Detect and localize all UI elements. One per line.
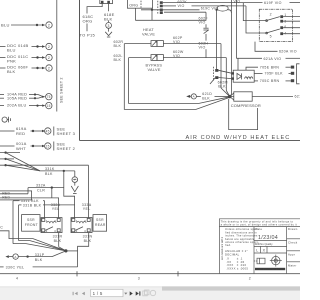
svg-text:Date: Date (255, 227, 262, 231)
svg-text:A: A (14, 255, 16, 259)
svg-text:.XXXX ± .0005: .XXXX ± .0005 (226, 267, 248, 271)
svg-text:SSR: SSR (96, 218, 104, 222)
label HEAT VALVE (142, 28, 155, 36)
connector P2 pins (158, 0, 163, 14)
checked divider (287, 250, 300, 252)
svg-text:BLK: BLK (84, 239, 92, 243)
wire 705F BLK (254, 72, 291, 74)
label 602W VIO (173, 50, 184, 58)
svg-text:4: 4 (16, 276, 18, 280)
splice junction 2 (64, 249, 67, 252)
wire 332A CLR (28, 186, 64, 197)
SSR FRONT label box (22, 215, 40, 232)
frame vertical line (79, 0, 81, 141)
svg-text:BLK: BLK (7, 69, 15, 74)
wire 621A to clutch (237, 58, 239, 70)
svg-text:VIO: VIO (173, 54, 180, 58)
svg-text:VIO: VIO (178, 4, 185, 8)
wire 619C to clutch connector (216, 10, 218, 69)
label 621D BLK (202, 92, 212, 100)
label 602K VIO (178, 0, 188, 8)
title block outline (219, 219, 300, 274)
wire 618E BLK (108, 4, 110, 23)
wire BLU (11, 24, 45, 26)
svg-text:75: 75 (47, 95, 51, 99)
svg-text:332A: 332A (36, 183, 46, 187)
pin circle 15b (45, 143, 51, 149)
svg-text:VIO: VIO (234, 0, 241, 3)
svg-text:BLU: BLU (1, 23, 10, 28)
wire 602P VIO (163, 44, 229, 97)
icon prev page (82, 292, 85, 295)
svg-text:619C VIO: 619C VIO (201, 6, 219, 10)
relay output wires (283, 17, 300, 34)
label 331R BLK (53, 234, 63, 243)
svg-text:4: 4 (54, 229, 56, 233)
thermostat switch S1 (203, 24, 208, 40)
svg-text:331P: 331P (35, 253, 45, 257)
icon snapshot disabled (143, 290, 149, 296)
label 618C ORG (83, 14, 94, 24)
svg-text:SHEET 2: SHEET 2 (57, 146, 76, 151)
svg-text:621: 621 (295, 94, 301, 98)
svg-text:BLK: BLK (202, 96, 210, 100)
icon zoom disabled (150, 290, 155, 295)
wire splice to 330C (66, 250, 78, 252)
date cell divider (254, 239, 287, 241)
svg-text:2: 2 (249, 276, 251, 280)
wire RED 1 (0, 193, 28, 195)
wire 331K branch down (64, 171, 75, 218)
wire 619F branch to relay (243, 3, 266, 21)
icon first page (73, 292, 78, 295)
svg-text:fied.: fied. (225, 243, 231, 247)
wire 331L BLK (13, 201, 45, 244)
icon last page (136, 291, 141, 295)
wire 331K BLK (40, 170, 75, 172)
pin circle 2 (060F) (46, 65, 52, 71)
wires splice fan to motor (230, 93, 234, 100)
label 602F VIO (199, 16, 209, 24)
ground symbol G2 (71, 182, 78, 193)
svg-text:VIO: VIO (199, 46, 206, 50)
svg-text:and details and with it: and details and with it (221, 237, 224, 260)
label 331P BLK (35, 253, 45, 262)
relay K1 box (259, 9, 292, 41)
splice junction (228, 95, 231, 98)
relay arm 2-1 (266, 13, 280, 22)
label 602L BLK (114, 54, 123, 62)
heat valve solenoid L1 (151, 41, 163, 47)
pin circle 75 (46, 94, 52, 100)
wire 105A RED (0, 96, 45, 100)
svg-text:YEL: YEL (52, 207, 60, 211)
svg-text:L: L (256, 249, 258, 253)
svg-text:331B BLK: 331B BLK (23, 203, 42, 207)
connector J1 top-left (100, 0, 113, 4)
svg-text:X: X (263, 249, 266, 253)
SSR REAR label box (93, 215, 107, 232)
pin circle 2 (011C) (46, 54, 52, 60)
bracket SEE SHEET 2 (54, 141, 76, 151)
svg-text:A: A (193, 95, 195, 99)
wire 602L return trunk (129, 58, 230, 104)
svg-text:VIO: VIO (199, 20, 206, 24)
notice micro text (221, 219, 297, 226)
label 602M BLK (218, 80, 228, 88)
connector pins right (291, 64, 300, 84)
wire 202A BLU (0, 104, 45, 106)
relay pins 1,3,6,4 (280, 13, 286, 35)
wire pin4 stub (164, 11, 206, 13)
svg-text:SHEET 3: SHEET 3 (57, 131, 76, 136)
compressor clutch box (232, 70, 255, 82)
label 602P VIO (173, 36, 183, 44)
svg-text:621A VIO: 621A VIO (264, 57, 282, 61)
label 331K BLK (45, 167, 55, 176)
svg-text:705C BRN: 705C BRN (260, 79, 280, 83)
wire to thermostat (135, 10, 206, 21)
svg-text:COMPRESSOR: COMPRESSOR (231, 103, 261, 108)
svg-text:331K: 331K (45, 167, 55, 171)
wire 621A VIO (236, 57, 300, 59)
svg-text:This drawing is the property o: This drawing is the property of and info… (221, 219, 294, 223)
SECTION:TITLE-BLOCK (219, 219, 300, 274)
svg-text:4: 4 (84, 229, 86, 233)
connector bracket line P15 (56, 0, 58, 112)
drawn divider (287, 238, 300, 240)
svg-text:619F VIO: 619F VIO (264, 1, 282, 5)
wire 331N BLK (78, 233, 89, 267)
svg-text:Drawn: Drawn (288, 227, 298, 231)
svg-text:Mater: Mater (288, 263, 297, 267)
wire 620A VIO (255, 42, 278, 52)
label 602H VIO (199, 42, 209, 50)
svg-text:BLK: BLK (114, 58, 122, 62)
bypass valve solenoid L2 (151, 55, 163, 61)
svg-text:VIO: VIO (173, 40, 180, 44)
battery symbol B1 (2, 117, 11, 123)
wire 621 output (252, 96, 293, 98)
label 331N BLK (83, 234, 93, 243)
wire 619F VIO (163, 2, 300, 4)
wire 602W VIO (163, 58, 229, 97)
svg-text:CLR: CLR (37, 188, 45, 192)
svg-text:THIRD ANGLE PROJECTION: THIRD ANGLE PROJECTION (255, 268, 285, 271)
svg-text:2: 2 (48, 56, 50, 60)
pin circle 15 (46, 102, 52, 108)
svg-text:6: 6 (284, 25, 286, 29)
wire 330C YEL (0, 266, 78, 268)
compressor motor box (234, 92, 252, 101)
SECTION:TOOLBAR (0, 286, 300, 300)
page number field (91, 289, 123, 296)
pin circle 2 (014B) (46, 43, 52, 49)
wire 619C VIO (141, 9, 231, 13)
wire 618C ORG (87, 4, 102, 14)
toolbar top edge (0, 286, 300, 288)
wire 602M stub (210, 78, 215, 84)
svg-text:BLU: BLU (7, 47, 16, 52)
svg-text:BLK: BLK (218, 84, 226, 88)
svg-text:BLK: BLK (104, 16, 112, 21)
svg-text:SEE SHEET 2: SEE SHEET 2 (60, 77, 64, 103)
connector box 618M ORG (127, 0, 152, 8)
dropdown caret (124, 293, 127, 295)
label 332A CLR (36, 183, 46, 192)
svg-text:705F BLK: 705F BLK (265, 72, 284, 76)
wire 602R return trunk (124, 44, 229, 110)
column divider right (286, 227, 288, 274)
svg-text:Drillthru Quality: Drillthru Quality (255, 242, 273, 246)
bracket SEE SHEET 3 (54, 126, 76, 136)
svg-text:15: 15 (47, 104, 51, 108)
svg-text:AIR COND W/HYD HEAT ELEC: AIR COND W/HYD HEAT ELEC (186, 135, 291, 141)
svg-text:Check: Check (288, 240, 298, 244)
label 001A WHT (16, 141, 27, 151)
wire VIO vertical 2 (621A) (235, 0, 237, 58)
wire 621D BLK with arrow (186, 94, 228, 99)
column divider left (253, 227, 255, 274)
label 333A YEL (82, 203, 92, 211)
svg-text:RED: RED (2, 195, 10, 199)
wire 331B to splice (19, 241, 66, 251)
svg-text:WHT: WHT (16, 146, 26, 151)
svg-text:BLK: BLK (54, 239, 62, 243)
toolbar background (0, 286, 300, 300)
svg-text:RED: RED (16, 131, 25, 136)
label DDC 011C PNK (7, 54, 28, 64)
wire 602K VIO (163, 5, 246, 7)
alternator symbol M1 (72, 171, 78, 183)
SSR relay rear (71, 218, 92, 233)
wire from 618M pin (134, 8, 136, 20)
wire 705E BRN (246, 67, 291, 70)
pin circle 2 (BLU) (46, 22, 52, 28)
wire feed 1 (0, 151, 40, 170)
ground symbol G1 (105, 28, 112, 37)
wire 619A RED (0, 130, 45, 132)
wire VIO vertical 1 (230, 0, 232, 94)
L X cells (254, 246, 287, 253)
svg-text:2: 2 (48, 66, 50, 70)
icon next page (130, 291, 133, 295)
svg-text:REAR: REAR (95, 223, 106, 227)
tolerance table text (225, 249, 248, 271)
svg-text:BLK: BLK (35, 258, 43, 262)
svg-text:C: C (0, 225, 3, 229)
svg-text:VALVE: VALVE (148, 68, 161, 72)
svg-text:BLK: BLK (114, 44, 122, 48)
label 332A YEL (51, 203, 61, 211)
svg-text:YEL: YEL (83, 207, 91, 211)
wire 331R BLK (59, 233, 66, 251)
svg-text:SSR: SSR (27, 218, 35, 222)
relay arm 5-6 (266, 29, 280, 39)
compressor enclosure (229, 99, 258, 130)
svg-text:PNK: PNK (7, 58, 16, 63)
zone tick 2 (177, 271, 179, 276)
svg-text:ORG: ORG (83, 18, 93, 23)
svg-text:331N: 331N (83, 234, 93, 238)
svg-text:3: 3 (108, 24, 110, 28)
svg-text:Appr: Appr (288, 252, 295, 256)
label BYPASS VALVE (146, 64, 163, 72)
pin circle 3 (106, 23, 112, 29)
svg-text:ORG: ORG (129, 3, 138, 7)
toolbar right shaded strip (162, 286, 300, 290)
label 619A RED (16, 126, 27, 136)
svg-text:15: 15 (46, 144, 50, 148)
svg-text:3: 3 (138, 276, 140, 280)
projection symbol crosshair (270, 255, 282, 267)
wire 602R BLK (124, 43, 151, 45)
wire left hook (0, 231, 66, 251)
wire 331L to splice (13, 244, 66, 251)
wire 602H (205, 49, 207, 57)
tolerance micro text (225, 227, 259, 247)
wire 104A RED (0, 93, 43, 96)
label DDC 060F BLK (7, 64, 29, 74)
svg-text:2: 2 (48, 23, 50, 27)
wire 705C BRN (254, 80, 291, 82)
wire 331P BLK with arrow A (5, 251, 66, 259)
pin circle 45 (45, 128, 51, 134)
wire feed 2 (0, 158, 40, 171)
approved divider (287, 261, 300, 263)
drillthru quality row (254, 242, 287, 247)
svg-text:705E BRN: 705E BRN (260, 66, 279, 70)
wire clutch feed 2 (218, 78, 231, 79)
projection symbol cylinder (254, 258, 265, 264)
third angle projection text (255, 268, 285, 270)
svg-text:330C YEL: 330C YEL (6, 265, 25, 269)
wire splice to v1 (230, 94, 232, 96)
svg-text:331R: 331R (53, 234, 63, 238)
wire 333A YEL drop (88, 165, 90, 217)
svg-text:202A BLU: 202A BLU (7, 104, 27, 108)
label 618E BLK (104, 12, 115, 21)
svg-text:TO P15: TO P15 (80, 33, 96, 38)
wire DDC 014B BLU (0, 45, 45, 47)
svg-text:2: 2 (270, 13, 272, 17)
label DDC 014B BLU (7, 43, 29, 53)
zone tick 1 (76, 271, 78, 276)
svg-text:1 / 5: 1 / 5 (93, 291, 103, 296)
svg-text:620A VIO: 620A VIO (279, 50, 297, 54)
svg-text:45: 45 (46, 129, 50, 133)
wire 331B BLK (19, 205, 75, 241)
wire feed 3 / 333A trunk (0, 164, 89, 171)
svg-text:BLK: BLK (45, 172, 53, 176)
drawing border bottom (0, 273, 300, 275)
wire clutch feed 1 (218, 70, 231, 73)
wire to P15 (86, 24, 88, 32)
wire 602L BLK (129, 57, 151, 59)
svg-text:2: 2 (48, 45, 50, 49)
svg-text:5: 5 (270, 35, 272, 39)
svg-text:VALVE: VALVE (142, 32, 155, 36)
wire 001A WHT (0, 145, 45, 147)
label 602R BLK (114, 40, 124, 48)
cable box RED RED (0, 191, 32, 200)
wire 602K branch to relay (246, 6, 266, 33)
svg-text:105A RED: 105A RED (7, 96, 27, 100)
frame divider horizontal (80, 140, 301, 142)
notice band divider (219, 226, 300, 228)
connector pins mid (214, 67, 219, 81)
SSR relay front (41, 218, 62, 233)
wire DDC 060F BLK (0, 67, 45, 69)
svg-text:FRONT: FRONT (25, 223, 38, 227)
wire RED 2 / 332A YEL trunk (0, 198, 59, 218)
wire DDC 011C PNK (0, 56, 45, 58)
